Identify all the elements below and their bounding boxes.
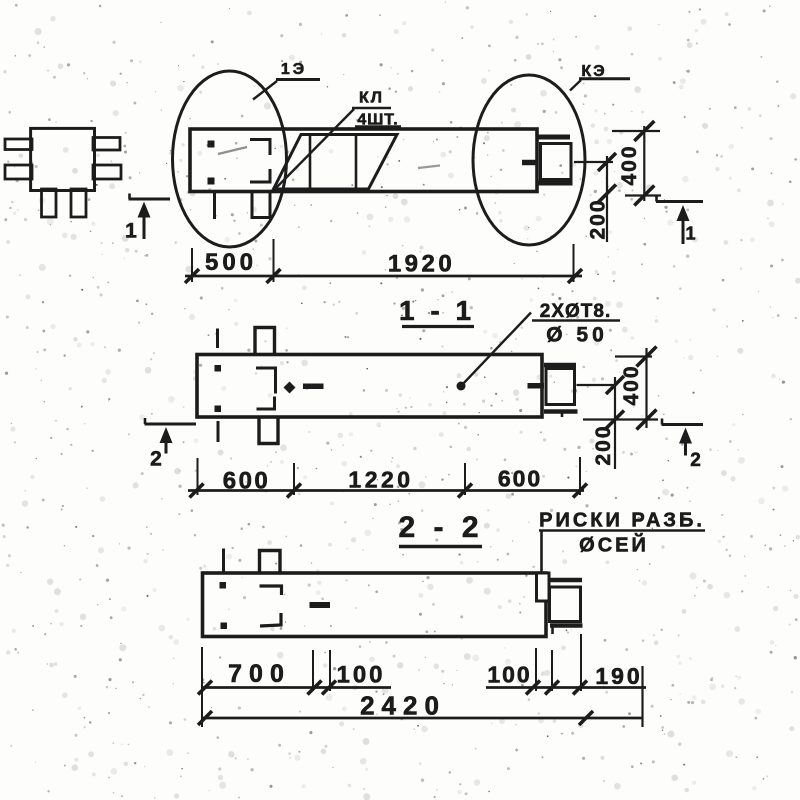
rebar bottom right bbox=[71, 189, 86, 217]
bar stub above (section 1-1) bbox=[216, 329, 219, 349]
svg-text:ØСЕЙ: ØСЕЙ bbox=[579, 533, 649, 557]
tenon at right end (elevation) bbox=[522, 137, 573, 183]
lifting loop mark (section 2-2) bbox=[310, 602, 331, 608]
dimension line 700 / 100 / 100 / 190 (section 2-2) bbox=[198, 634, 646, 727]
anchor dots left end (section 2-2) bbox=[220, 583, 227, 629]
svg-text:2 - 2: 2 - 2 bbox=[398, 511, 483, 544]
bar stub above (section 2-2) bbox=[222, 549, 225, 573]
tenon at right end (section 1-1) bbox=[528, 365, 578, 417]
section mark 2 right bbox=[662, 419, 704, 471]
rebar left upper bbox=[5, 139, 32, 150]
hatched wedge region on beam bbox=[274, 135, 398, 190]
svg-text:500: 500 bbox=[205, 249, 257, 276]
svg-text:Ø 50: Ø 50 bbox=[546, 324, 608, 347]
rebar right lower bbox=[93, 165, 121, 179]
rebar right upper bbox=[93, 138, 120, 151]
svg-text:200: 200 bbox=[592, 424, 615, 465]
section mark 2 left bbox=[145, 418, 197, 471]
svg-text:190: 190 bbox=[595, 663, 642, 689]
anchor dots left end (elevation) bbox=[208, 141, 214, 184]
section title 2 - 2 bbox=[398, 511, 483, 547]
label РИСКИ РАЗБ. ОСЕЙ with leader bbox=[539, 510, 705, 574]
svg-text:200: 200 bbox=[587, 198, 610, 239]
dimension line 500 / 1920 (elevation) bbox=[185, 239, 582, 283]
detail ellipse left end bbox=[173, 71, 287, 247]
section mark 1 left bbox=[125, 194, 170, 243]
dimension line 600 / 1220 / 600 (section 1-1) bbox=[188, 457, 587, 498]
dimension 400 vertical (section 1-1) bbox=[583, 347, 658, 430]
section title 1 - 1 bbox=[399, 295, 475, 326]
faint pencil mark (elevation middle) bbox=[418, 166, 440, 169]
column end view square bbox=[31, 128, 95, 190]
dashed embed bracket (section 1-1) bbox=[256, 368, 276, 409]
svg-text:700: 700 bbox=[228, 660, 291, 688]
svg-text:1: 1 bbox=[685, 223, 695, 243]
svg-text:600: 600 bbox=[223, 468, 271, 495]
svg-text:100: 100 bbox=[336, 662, 385, 689]
svg-text:1: 1 bbox=[125, 220, 137, 243]
lifting loop symbol (section 1-1) bbox=[284, 382, 324, 394]
stirrup loop below (section 1-1) bbox=[259, 418, 278, 444]
tenon at right end (section 2-2) bbox=[549, 580, 583, 634]
label 1Э with leader (left ellipse) bbox=[253, 61, 320, 100]
svg-text:РИСКИ РАЗБ.: РИСКИ РАЗБ. bbox=[539, 510, 705, 532]
beam outline (section 1-1) bbox=[197, 355, 542, 418]
svg-text:400: 400 bbox=[620, 364, 643, 405]
label КЭ with leader (right ellipse) bbox=[570, 63, 630, 91]
rebar bottom left bbox=[42, 189, 57, 217]
dimension 200 vertical (elevation) bbox=[574, 153, 616, 242]
stirrup loop above (section 2-2) bbox=[260, 551, 281, 574]
section mark 1 right bbox=[656, 196, 703, 245]
svg-text:600: 600 bbox=[498, 465, 542, 491]
anchor dots left end (section 1-1) bbox=[215, 366, 221, 412]
detail ellipse right end bbox=[473, 75, 585, 245]
dimension 400 vertical (elevation) bbox=[612, 121, 661, 206]
svg-text:1220: 1220 bbox=[348, 466, 413, 492]
faint pencil mark (elevation left) bbox=[218, 147, 247, 154]
rebar left lower bbox=[5, 165, 32, 179]
hole callout 2ХØТ8 Ø50 with leader bbox=[457, 301, 621, 391]
svg-text:100: 100 bbox=[487, 661, 531, 687]
stirrup loop above (section 1-1) bbox=[255, 328, 275, 355]
dimension line 2420 (section 2-2) bbox=[198, 690, 643, 725]
dashed embed bracket (elevation) bbox=[250, 140, 270, 183]
dashed embed bracket (section 2-2) bbox=[260, 586, 282, 626]
svg-text:1Э: 1Э bbox=[281, 61, 307, 78]
svg-text:КЛ: КЛ bbox=[359, 89, 384, 106]
svg-text:КЭ: КЭ bbox=[581, 63, 606, 80]
svg-text:2ХØТ8.: 2ХØТ8. bbox=[540, 301, 611, 322]
label КЛ / 4ШТ with leader bbox=[275, 89, 401, 189]
dimension 200 vertical (section 1-1) bbox=[577, 376, 625, 469]
svg-text:1 - 1: 1 - 1 bbox=[399, 295, 475, 326]
svg-text:400: 400 bbox=[618, 144, 641, 185]
svg-text:2: 2 bbox=[690, 450, 701, 471]
svg-text:2: 2 bbox=[150, 448, 162, 471]
bar stub below (section 1-1) bbox=[217, 421, 220, 442]
beam outline (elevation view) bbox=[190, 129, 537, 192]
beam outline (section 2-2) bbox=[203, 573, 547, 637]
svg-text:2420: 2420 bbox=[360, 690, 446, 720]
svg-text:1920: 1920 bbox=[388, 251, 455, 278]
protruding loop below beam (elevation) bbox=[252, 192, 270, 218]
axis mark riska at beam end bbox=[537, 573, 550, 601]
protruding bar below beam (elevation) bbox=[213, 193, 216, 219]
